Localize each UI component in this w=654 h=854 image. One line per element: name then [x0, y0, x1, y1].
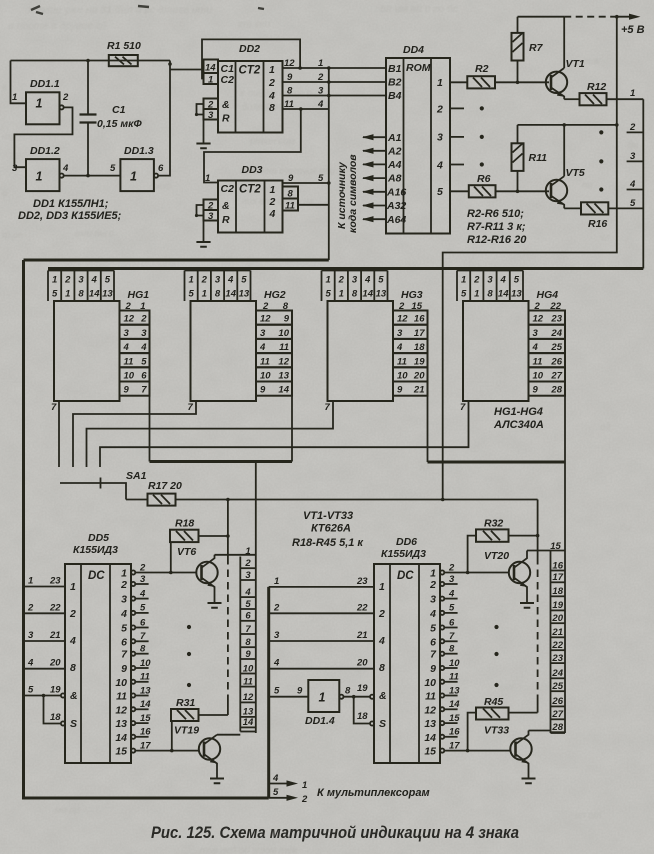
svg-text:4: 4	[436, 160, 443, 172]
svg-text:1: 1	[270, 184, 276, 196]
wire 4 (DD2 pin11)	[283, 108, 329, 110]
svg-text:A1: A1	[387, 132, 402, 144]
+5V rail	[518, 16, 565, 18]
svg-text:12: 12	[424, 704, 436, 716]
svg-text:12: 12	[115, 704, 127, 716]
wire R6 to VT5 base	[496, 190, 550, 192]
svg-text:19: 19	[414, 356, 425, 367]
svg-text:4: 4	[378, 635, 385, 647]
svg-text:12: 12	[533, 314, 544, 325]
svg-text:7: 7	[140, 631, 146, 642]
svg-text:B2: B2	[388, 77, 402, 89]
svg-text:5: 5	[514, 275, 520, 286]
svg-text:1: 1	[70, 581, 76, 593]
svg-text:8: 8	[269, 102, 275, 114]
wire 4 to DD6 pin 20	[269, 668, 374, 670]
svg-text:5: 5	[437, 186, 443, 198]
svg-text:13: 13	[424, 718, 436, 730]
svg-text:A4: A4	[387, 159, 402, 171]
ground DD2	[203, 120, 205, 143]
svg-text:3: 3	[208, 110, 214, 121]
svg-text:5: 5	[378, 275, 384, 286]
output arrow wire 5	[269, 797, 293, 799]
svg-text:A8: A8	[387, 173, 402, 185]
svg-text:3: 3	[28, 630, 34, 641]
svg-text:7: 7	[141, 385, 147, 396]
svg-text:18: 18	[50, 712, 61, 723]
right bus vertical from bottom to DD6 inputs	[267, 587, 270, 798]
svg-text:1: 1	[630, 88, 635, 99]
svg-text:9: 9	[397, 385, 403, 396]
svg-text:1: 1	[202, 289, 207, 300]
svg-text:VT1-VT33: VT1-VT33	[303, 510, 353, 522]
svg-text:13: 13	[278, 371, 289, 382]
svg-text:R7-R11 3 к;: R7-R11 3 к;	[467, 221, 526, 233]
wire R31 left down to VT19 base	[171, 721, 173, 751]
svg-text:1: 1	[430, 568, 436, 580]
svg-text:10: 10	[397, 371, 408, 382]
svg-text:C1: C1	[112, 104, 126, 116]
dark smudges at top edge	[31, 6, 264, 14]
wire DD1.4 out to DD6 pin 19	[344, 696, 371, 698]
svg-text:рован сим: рован сим	[249, 136, 296, 147]
svg-text:вив: вив	[584, 56, 599, 67]
svg-text:&: &	[379, 690, 387, 702]
svg-text:14: 14	[225, 289, 236, 300]
resistor R16	[564, 207, 581, 209]
resistor R1	[109, 55, 138, 66]
svg-text:A2: A2	[387, 146, 402, 158]
svg-text:A64: A64	[386, 214, 406, 226]
svg-text:DD1.2: DD1.2	[30, 145, 60, 157]
svg-text:17: 17	[414, 328, 425, 339]
arrow A1	[363, 136, 386, 138]
resistor R6	[469, 185, 496, 197]
svg-text:по: по	[582, 180, 593, 191]
wire DD1.1 out to DD1.2 in	[14, 107, 72, 167]
svg-text:5: 5	[273, 787, 279, 798]
svg-text:6: 6	[140, 617, 146, 628]
svg-text:9: 9	[287, 72, 293, 83]
svg-text:DD4: DD4	[403, 44, 424, 56]
bundle vertical from wires to bus A	[328, 68, 330, 260]
svg-text:25: 25	[550, 342, 562, 353]
DD4 out3 stub	[450, 136, 464, 138]
svg-text:22: 22	[356, 602, 368, 613]
svg-text:3: 3	[318, 86, 324, 97]
svg-text:DD1.4: DD1.4	[305, 715, 335, 727]
svg-text:5: 5	[188, 289, 194, 300]
resistor R2	[467, 76, 495, 88]
svg-text:10: 10	[140, 658, 151, 669]
svg-text:4: 4	[139, 588, 146, 599]
svg-text:2: 2	[139, 562, 146, 573]
svg-text:CT2: CT2	[239, 65, 261, 77]
svg-text:5: 5	[121, 623, 127, 635]
svg-text:HG2: HG2	[264, 289, 286, 301]
svg-text:14: 14	[140, 699, 151, 710]
svg-text:DD1.3: DD1.3	[124, 145, 154, 157]
ground DD3	[203, 221, 205, 242]
svg-text:R7: R7	[529, 42, 544, 54]
svg-text:7: 7	[460, 402, 466, 413]
resistor R7	[517, 17, 519, 83]
pin box 2 (R)	[204, 99, 219, 110]
svg-text:5: 5	[52, 289, 58, 300]
wire R45 right to pull-up vertical	[509, 712, 538, 714]
svg-text:9: 9	[121, 663, 127, 675]
svg-text:4: 4	[272, 773, 279, 784]
svg-text:R45: R45	[484, 696, 503, 708]
svg-text:3: 3	[352, 275, 358, 286]
svg-text:4: 4	[27, 658, 34, 669]
svg-text:К155ИД3: К155ИД3	[381, 548, 426, 560]
DD4 out2 stub	[450, 107, 464, 109]
column rows 15-28	[564, 545, 566, 733]
svg-text:9: 9	[124, 385, 130, 396]
wire 4 feed to DD3 C2	[204, 109, 301, 183]
svg-text:23: 23	[49, 576, 61, 587]
wire DD3 pin11 to bundle	[298, 204, 329, 206]
svg-text:2: 2	[269, 196, 276, 208]
display HG3	[328, 301, 394, 401]
resistor R11	[517, 125, 519, 191]
svg-text:11: 11	[449, 672, 459, 683]
switch SA1	[60, 478, 126, 500]
svg-text:14: 14	[424, 732, 436, 744]
svg-text:2: 2	[140, 314, 147, 325]
svg-text:вл: вл	[600, 232, 611, 243]
svg-text:R16: R16	[588, 218, 607, 230]
arrow A4	[363, 163, 386, 165]
svg-text:ет вки: ет вки	[238, 19, 270, 30]
stub wire 2	[627, 131, 644, 133]
svg-text:12: 12	[260, 314, 271, 325]
svg-text:&: &	[222, 99, 230, 111]
svg-text:1: 1	[12, 92, 17, 103]
svg-text:1: 1	[188, 275, 193, 286]
svg-text:5: 5	[461, 289, 467, 300]
svg-text:2: 2	[473, 275, 480, 286]
svg-text:6: 6	[141, 371, 147, 382]
display HG2	[191, 301, 257, 401]
svg-text:11: 11	[140, 672, 150, 683]
svg-text:4: 4	[91, 275, 98, 286]
svg-text:11: 11	[397, 356, 407, 367]
resistor R31	[171, 709, 199, 721]
svg-text:1: 1	[302, 780, 307, 791]
svg-text:х пкте уже на 81 бнл: х пкте уже на 81 бнл о вс дтиге нти	[27, 4, 212, 16]
capacitor C1	[87, 61, 89, 176]
svg-text:5: 5	[318, 173, 324, 184]
svg-text:R: R	[222, 113, 230, 125]
svg-text:19: 19	[50, 685, 61, 696]
wire VT5 collector up	[563, 125, 565, 176]
svg-text:ме пр: ме пр	[55, 805, 80, 816]
svg-text:13: 13	[376, 289, 387, 300]
svg-text:11: 11	[533, 356, 543, 367]
svg-text:6: 6	[449, 617, 455, 628]
svg-text:4: 4	[120, 608, 127, 620]
wire 3 to DD6 pin 21	[269, 640, 374, 642]
wire R18 left down to VT6 base	[170, 542, 172, 572]
svg-text:21: 21	[356, 630, 368, 641]
svg-text:ед: ед	[600, 422, 610, 433]
svg-text:R17 20: R17 20	[148, 480, 182, 492]
svg-text:7: 7	[449, 631, 455, 642]
svg-text:15: 15	[140, 713, 151, 724]
svg-text:1: 1	[319, 691, 326, 705]
svg-text:14: 14	[89, 289, 100, 300]
svg-text:13: 13	[239, 289, 250, 300]
svg-text:8: 8	[345, 686, 351, 697]
svg-text:11: 11	[124, 356, 134, 367]
svg-text:2: 2	[273, 602, 280, 613]
resistor R17	[148, 494, 176, 506]
bus line B (column drive 1-5 to displays)	[48, 267, 643, 270]
svg-text:R12-R16 20: R12-R16 20	[467, 234, 527, 246]
svg-text:12: 12	[397, 314, 408, 325]
svg-text:14: 14	[115, 732, 127, 744]
svg-text:ROM: ROM	[406, 62, 431, 74]
wire R16 to stub 5	[608, 207, 643, 209]
svg-text:9: 9	[260, 385, 266, 396]
svg-text:23: 23	[356, 576, 368, 587]
svg-text:14: 14	[449, 699, 460, 710]
elision dots right	[494, 625, 498, 629]
svg-text:17: 17	[449, 740, 460, 751]
DD2 feedback loop pin12 to C2	[202, 39, 300, 78]
svg-text:20: 20	[356, 658, 368, 669]
svg-text:R12: R12	[587, 81, 606, 93]
svg-text:нз: нз	[420, 462, 430, 473]
svg-text:2: 2	[629, 122, 636, 133]
wire 5 to DD5 pin 19	[24, 695, 62, 697]
svg-text:VT1: VT1	[566, 58, 585, 70]
svg-text:1: 1	[269, 64, 275, 76]
svg-text:ди: ди	[628, 140, 639, 151]
wire R1 top net	[11, 60, 171, 62]
svg-text:4: 4	[140, 342, 147, 353]
svg-text:Рис. 125. Схема матричной инди: Рис. 125. Схема матричной индикации на 4…	[151, 824, 519, 842]
svg-text:1: 1	[339, 289, 344, 300]
inverter DD1.2	[26, 159, 60, 191]
svg-text:DD1 К155ЛН1;: DD1 К155ЛН1;	[33, 198, 109, 210]
wire VT19 collector to row 14	[217, 734, 240, 736]
svg-text:2: 2	[120, 579, 127, 591]
svg-text:6: 6	[158, 163, 164, 174]
svg-text:5: 5	[110, 163, 116, 174]
ground VT19	[210, 779, 224, 784]
svg-text:ил от: ил от	[575, 810, 602, 821]
svg-text:5: 5	[274, 686, 280, 697]
svg-text:8: 8	[215, 289, 221, 300]
svg-text:2: 2	[27, 602, 34, 613]
svg-text:C2: C2	[221, 183, 235, 195]
svg-text:HG4: HG4	[537, 289, 559, 301]
svg-text:4: 4	[123, 342, 130, 353]
svg-text:CT2: CT2	[239, 184, 261, 196]
svg-text:DD3: DD3	[242, 164, 263, 176]
svg-text:3: 3	[274, 630, 280, 641]
wire 1 (DD2 pin12 to B1)	[283, 67, 387, 69]
wire VT1 collector to rail	[563, 17, 565, 68]
svg-text:A32: A32	[386, 200, 406, 212]
svg-text:4: 4	[317, 99, 324, 110]
svg-text:17: 17	[140, 740, 151, 751]
wire VT6 collector to row 1	[215, 554, 256, 556]
wire node to DD2 C1	[170, 69, 204, 71]
svg-text:27: 27	[550, 371, 562, 382]
resistor R12	[564, 98, 579, 100]
wire 2 to DD6 pin 22	[269, 612, 374, 614]
svg-text:3: 3	[141, 328, 147, 339]
svg-text:15: 15	[115, 746, 127, 758]
svg-text:16: 16	[140, 727, 151, 738]
inverter DD1.4	[308, 680, 339, 712]
node A (R1 left junction)	[86, 59, 90, 63]
svg-text:DD5: DD5	[88, 532, 109, 544]
svg-text:8: 8	[487, 289, 493, 300]
svg-text:12: 12	[284, 58, 295, 69]
wire HG4 pin7 to SA1 contact 4	[100, 401, 469, 467]
stubs vertical bus far right	[642, 99, 644, 268]
svg-text:1: 1	[52, 275, 57, 286]
svg-text:C2: C2	[221, 74, 235, 86]
arrow A32	[363, 205, 386, 207]
svg-text:ди: ди	[620, 522, 631, 533]
svg-text:R31: R31	[176, 697, 195, 709]
resistor R32	[476, 529, 509, 541]
svg-text:3: 3	[430, 594, 436, 606]
elision dots left	[187, 625, 191, 629]
stub wire 3	[627, 160, 644, 162]
svg-text:24: 24	[550, 328, 562, 339]
svg-text:8: 8	[379, 662, 385, 674]
svg-text:10: 10	[424, 677, 436, 689]
svg-text:10: 10	[260, 371, 271, 382]
svg-text:11: 11	[285, 201, 295, 212]
svg-text:18: 18	[414, 342, 425, 353]
svg-text:5: 5	[241, 275, 247, 286]
svg-text:+5 В: +5 В	[621, 24, 645, 36]
svg-text:1: 1	[121, 568, 127, 580]
svg-text:те: те	[2, 132, 15, 143]
svg-text:1: 1	[205, 173, 210, 184]
wire 5 to DD1.4 input	[269, 696, 309, 698]
svg-text:0,15 мкФ: 0,15 мкФ	[97, 118, 142, 130]
bundle drop to column 1-14	[255, 462, 257, 557]
svg-text:1: 1	[379, 581, 385, 593]
svg-text:5: 5	[140, 603, 146, 614]
wire DD4 out5 to R6	[450, 190, 469, 192]
svg-text:R32: R32	[484, 518, 503, 530]
resistor R18	[170, 530, 199, 542]
svg-text:DC: DC	[88, 570, 105, 582]
svg-text:13: 13	[115, 718, 127, 730]
svg-text:B1: B1	[388, 63, 402, 75]
svg-text:R11: R11	[529, 152, 548, 164]
arrow A2	[363, 150, 386, 152]
stub wire 4	[627, 189, 644, 191]
svg-text:8: 8	[78, 289, 84, 300]
svg-text:S: S	[379, 718, 386, 730]
svg-text:5: 5	[105, 275, 111, 286]
node C1 bottom junction	[86, 174, 90, 178]
svg-text:SA1: SA1	[126, 470, 147, 482]
wire 1 to DD5 pin 23	[24, 586, 66, 588]
wire DD1.1 input feedback	[11, 61, 27, 104]
wire R32 left down to VT20 base	[468, 536, 476, 573]
svg-text:9: 9	[533, 385, 539, 396]
svg-text:3: 3	[487, 275, 493, 286]
svg-text:19: 19	[357, 683, 368, 694]
svg-text:R1 510: R1 510	[107, 40, 141, 52]
svg-text:ол им att с го бс: ол им att с го бс	[380, 3, 459, 15]
wire R reset tie to ground DD2	[197, 104, 204, 115]
svg-text:4: 4	[532, 342, 539, 353]
svg-text:3: 3	[630, 151, 636, 162]
svg-text:DC: DC	[397, 570, 414, 582]
svg-text:23: 23	[550, 314, 562, 325]
pin box 2 (DD3)	[204, 200, 219, 211]
svg-text:3: 3	[437, 132, 443, 144]
svg-text:5: 5	[325, 289, 331, 300]
svg-text:HG1: HG1	[128, 289, 150, 301]
svg-text:тse нед об этом тék: тse нед об этом тék	[200, 845, 298, 854]
wire R32 right to pull-up vertical	[509, 535, 538, 537]
svg-text:26: 26	[550, 356, 562, 367]
svg-text:28: 28	[550, 385, 562, 396]
svg-text:7: 7	[188, 402, 194, 413]
svg-text:DD2: DD2	[239, 43, 260, 55]
wire 2 to DD5 pin 22	[24, 612, 66, 614]
arrow A16	[363, 191, 386, 193]
svg-text:16: 16	[449, 727, 460, 738]
svg-text:8: 8	[140, 644, 146, 655]
svg-text:2: 2	[436, 104, 443, 116]
svg-text:VT33: VT33	[484, 725, 509, 737]
svg-text:9: 9	[284, 314, 290, 325]
svg-text:т ре-: т ре-	[2, 230, 26, 241]
wire 1 to DD6 pin 23	[269, 586, 374, 588]
wire 5 (DD3 pin9)	[283, 182, 329, 184]
svg-text:4: 4	[227, 275, 234, 286]
svg-text:S: S	[70, 718, 77, 730]
inverter DD1.3	[120, 159, 153, 191]
svg-text:7: 7	[325, 402, 331, 413]
svg-text:R2: R2	[475, 63, 489, 75]
svg-text:8: 8	[70, 662, 76, 674]
svg-text:13: 13	[511, 289, 522, 300]
svg-text:1: 1	[318, 58, 323, 69]
svg-text:5: 5	[141, 356, 147, 367]
svg-text:VT6: VT6	[177, 546, 196, 558]
svg-text:&: &	[222, 200, 230, 212]
svg-text:5: 5	[28, 685, 34, 696]
wire DD1.3 out to R1 right node	[158, 61, 170, 176]
svg-text:4: 4	[429, 608, 436, 620]
pin box 11 (DD3 out)	[283, 199, 299, 211]
svg-text:4: 4	[259, 342, 266, 353]
svg-text:К155ИД3: К155ИД3	[73, 544, 118, 556]
bundle wire HG1/HG2 columns down	[149, 311, 151, 462]
svg-text:VT20: VT20	[484, 550, 509, 562]
svg-text:2: 2	[69, 608, 76, 620]
svg-text:&: &	[70, 690, 78, 702]
pin box 14	[204, 60, 219, 74]
inverter DD1.1	[26, 92, 60, 124]
